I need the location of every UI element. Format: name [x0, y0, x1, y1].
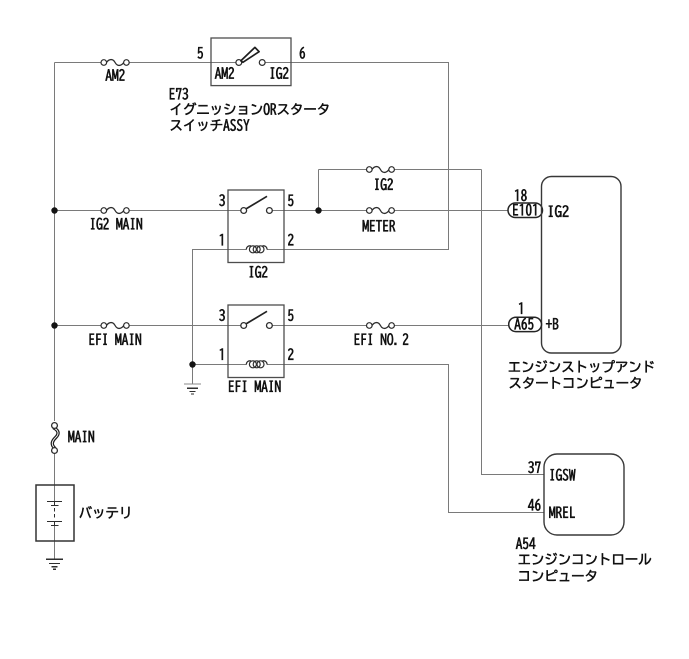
wire EFI relay coil interior left — [228, 364, 246, 366]
label MAIN fusible link — [68, 431, 94, 442]
label fuse EFI NO.2 digit — [403, 333, 408, 344]
wire bus to AM2 fuse — [55, 62, 102, 64]
wire riser node to IG2 fuse row — [318, 170, 320, 211]
label MREL (computer pin name) — [549, 507, 574, 518]
junction EFI coil ground node — [189, 361, 195, 367]
label A54 name line2 (computer) — [519, 570, 596, 582]
fuse EFI NO.2 — [367, 323, 395, 329]
wire IG2 MAIN fuse to relay pin3 — [129, 210, 241, 212]
wire IG2 MAIN row — [55, 210, 102, 212]
label A54 name line1 (engine control) — [519, 553, 651, 565]
pin 3 label (EFI relay) — [219, 309, 224, 321]
pin 3 label (IG2 relay) — [219, 194, 224, 206]
label A65 — [514, 318, 533, 330]
pin 1 label (EFI relay) — [220, 349, 223, 360]
wire EFI relay coil pin2 to A54 MREL — [267, 365, 544, 513]
pin 5 label (IG2 relay) — [288, 195, 293, 207]
connector A65 pin 1 — [509, 317, 542, 331]
wire EFI MAIN row — [55, 325, 102, 327]
switch lever — [241, 47, 259, 62]
label battery (katakana) — [80, 506, 130, 518]
label U1 name line1 (engine stop and) — [509, 360, 654, 372]
wire EFI MAIN fuse to relay pin3 — [129, 325, 241, 327]
fuse IG2 — [367, 167, 395, 173]
pin 37 label (A54) — [528, 461, 540, 473]
relay IG2 — [228, 190, 284, 263]
pin 1 label (A65) — [519, 303, 522, 314]
label fuse METER — [363, 220, 396, 231]
label fuse AM2 — [106, 69, 125, 80]
pin 5 label (switch) — [198, 47, 203, 59]
wire IG2 relay coil interior right — [267, 249, 284, 251]
junction bus IG2 MAIN — [51, 207, 57, 213]
ground battery — [46, 559, 63, 569]
switch contact AM2 — [236, 60, 242, 66]
relay EFI MAIN — [228, 305, 284, 378]
battery cells — [47, 502, 62, 526]
label relay IG2 — [250, 266, 267, 278]
label A54 — [516, 538, 535, 550]
wire IG2 relay contact to pin5 — [272, 210, 318, 212]
label IGSW (computer pin name) — [551, 469, 576, 481]
wire switch pin6 to IG2 relay coil pin2 — [284, 63, 449, 250]
label E73 name line1 (ignition OR starter) — [171, 103, 329, 115]
computer U1 box (engine stop and start computer) — [542, 177, 622, 354]
junction IG2 relay pin5 node — [315, 207, 321, 213]
junction bus EFI MAIN — [51, 322, 57, 328]
connector E101 pin 18 — [508, 203, 543, 218]
wire battery positive bus — [54, 63, 56, 422]
pin 2 label (IG2 relay) — [288, 234, 293, 245]
label IG2 (switch contact) — [271, 67, 288, 79]
label +B (computer pin name) — [546, 318, 558, 329]
wire node to METER fuse — [319, 210, 367, 212]
wire AM2 fuse to ignition switch — [129, 62, 239, 64]
label E73 name line2 (switch ASSY) — [171, 119, 250, 131]
label fuse IG2 — [375, 178, 392, 190]
fusible link MAIN — [52, 423, 58, 454]
wire IG2 fuse row left — [319, 169, 367, 171]
pin 1 label (IG2 relay) — [220, 234, 223, 245]
battery box — [36, 485, 74, 541]
wire EFI NO.2 fuse to A65 — [394, 325, 508, 327]
computer A54 box (engine control computer) — [544, 454, 624, 535]
switch contact IG2 — [259, 60, 265, 66]
label AM2 (switch contact) — [215, 67, 234, 78]
wire IG2 relay coil interior left — [228, 249, 246, 251]
wire battery to ground — [54, 526, 56, 560]
label fuse EFI NO.2 — [355, 333, 397, 345]
label IG2 (computer pin name) — [549, 205, 569, 217]
wire IGSW riser and lead to A54 pin37 — [482, 170, 545, 475]
pin 46 label (A54) — [528, 499, 540, 511]
fuse EFI MAIN — [101, 323, 129, 329]
pin 5 label (EFI relay) — [288, 310, 293, 322]
wire IG2 fuse to IGSW riser — [394, 169, 481, 171]
label relay EFI MAIN — [229, 381, 280, 392]
wire EFI relay coil pin1 lead — [193, 364, 242, 366]
ignition switch box E73 — [211, 38, 291, 86]
label E101 — [513, 204, 536, 216]
pin 18 label (E101) — [515, 189, 527, 201]
ground EFI relay — [184, 384, 201, 394]
fuse AM2 — [101, 60, 129, 66]
label fuse IG2 MAIN — [91, 218, 142, 230]
pin 2 label (EFI relay) — [288, 348, 293, 359]
wire IG2 relay coil pin1 to ground riser — [193, 250, 242, 385]
pin 6 label (switch) — [300, 47, 305, 59]
fuse IG2 MAIN — [101, 208, 129, 214]
label U1 name line2 (start computer) — [510, 377, 641, 389]
wire fusible link to battery — [54, 452, 56, 502]
fuse METER — [367, 208, 395, 214]
label fuse EFI MAIN — [90, 334, 141, 345]
wire switch AM2 contact lead — [265, 62, 291, 64]
wire METER fuse to E101 — [394, 210, 508, 212]
label E73 — [170, 88, 188, 100]
wire EFI relay pin5 to EFI NO.2 fuse — [272, 325, 366, 327]
